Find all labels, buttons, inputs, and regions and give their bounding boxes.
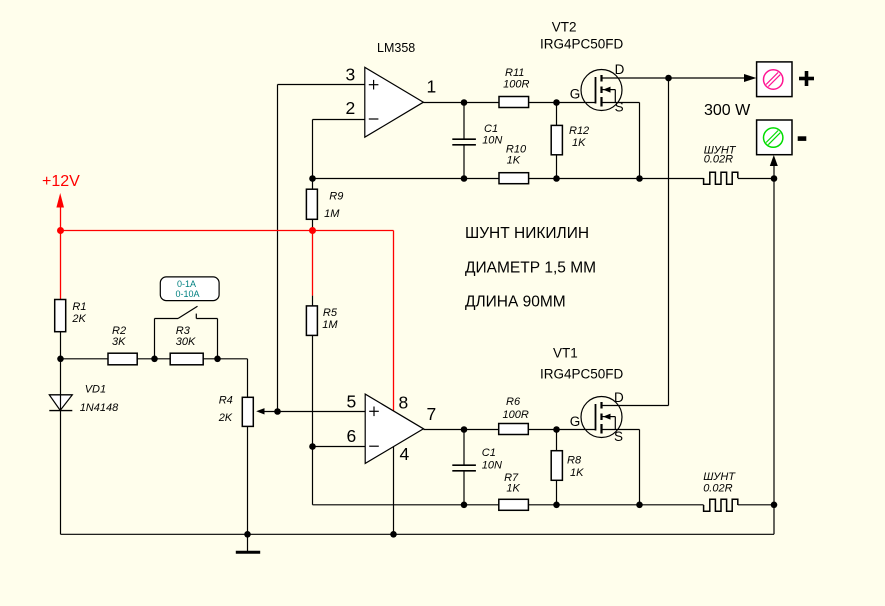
svg-text:5: 5 — [347, 392, 357, 412]
wire R12 top lead — [556, 103, 558, 126]
resistor R9 — [306, 189, 317, 219]
resistor R12 — [551, 125, 562, 154]
junction dots red — [57, 227, 316, 234]
wire pin5 horizontal — [278, 411, 366, 413]
svg-text:R4: R4 — [219, 395, 233, 407]
svg-text:VT2: VT2 — [552, 20, 577, 35]
node R6-R8-G — [553, 426, 560, 433]
svg-text:100R: 100R — [503, 78, 529, 90]
svg-text:D: D — [615, 62, 625, 77]
svg-text:+12V: +12V — [42, 173, 80, 190]
svg-text:ДИАМЕТР 1,5 ММ: ДИАМЕТР 1,5 ММ — [465, 260, 596, 277]
svg-text:0-1A: 0-1A — [177, 279, 196, 289]
svg-text:R9: R9 — [329, 190, 343, 202]
node pin6-R5 — [309, 443, 316, 450]
terminal + (output) — [757, 62, 792, 97]
svg-text:0-10A: 0-10A — [175, 289, 199, 299]
node pin4-ground — [390, 531, 397, 538]
node op2out-C1 — [461, 426, 468, 433]
node rowB-S — [636, 175, 643, 182]
svg-text:G: G — [570, 87, 581, 102]
node rowH-C1 — [461, 502, 468, 509]
op-amp U1A LM358 — [365, 67, 424, 137]
svg-text:1K: 1K — [570, 467, 584, 479]
svg-text:8: 8 — [399, 393, 409, 413]
svg-text:2K: 2K — [218, 412, 233, 424]
WIRES-BLACK — [61, 78, 775, 534]
resistor R6 — [499, 424, 529, 435]
svg-text:2K: 2K — [71, 313, 86, 325]
svg-text:1N4148: 1N4148 — [80, 402, 119, 414]
svg-text:ШУНТ: ШУНТ — [703, 471, 736, 483]
svg-text:C1: C1 — [482, 447, 496, 459]
wire R1 bottom lead — [60, 332, 62, 359]
wire C1b top lead — [463, 430, 465, 466]
node rowH-R8 — [553, 502, 560, 509]
svg-text:1M: 1M — [322, 319, 338, 331]
arrow into minus terminal — [770, 155, 778, 166]
wire VT1 source horizontal — [602, 429, 640, 431]
minus sign — [798, 136, 807, 141]
svg-text:S: S — [615, 100, 624, 115]
node rowH-right — [771, 502, 778, 509]
node op1out-C1 — [461, 99, 468, 106]
node ground — [244, 531, 251, 538]
svg-text:VD1: VD1 — [85, 383, 106, 395]
svg-text:R6: R6 — [506, 396, 521, 408]
node rowD-left — [57, 356, 64, 363]
node +12V left — [57, 227, 64, 234]
wire row D segment 2 — [137, 358, 170, 360]
wire red +12V vertical — [60, 198, 62, 300]
svg-text:1M: 1M — [324, 208, 340, 220]
svg-text:7: 7 — [427, 404, 437, 424]
ground — [236, 534, 260, 552]
svg-text:R1: R1 — [72, 301, 86, 313]
svg-text:S: S — [614, 429, 623, 444]
node rowB-R9 — [309, 175, 316, 182]
wire switch left horizontal — [155, 318, 179, 320]
node D bus — [665, 75, 672, 82]
wire red branch to R5 — [312, 231, 314, 296]
resistor R11 — [499, 97, 529, 108]
svg-text:1: 1 — [427, 77, 437, 97]
svg-text:3: 3 — [346, 65, 356, 85]
svg-text:R5: R5 — [323, 307, 338, 319]
node rowB-R12 — [553, 175, 560, 182]
svg-text:VT1: VT1 — [553, 346, 578, 361]
node rowD-sw-right — [214, 356, 221, 363]
wire ground row I — [61, 533, 775, 535]
svg-text:0.02R: 0.02R — [704, 154, 733, 166]
wire R12 bottom lead — [556, 155, 558, 179]
svg-text:G: G — [570, 414, 581, 429]
wire diode to ground row — [60, 411, 62, 535]
wire C1 top lead — [463, 103, 465, 140]
wire R4 top lead — [247, 359, 249, 398]
wire drain bus vertical VT2-VT1 — [668, 78, 670, 406]
capacitor C1 (top) — [452, 139, 476, 145]
wire VT1 source vertical — [639, 430, 641, 505]
resistor R3 — [170, 353, 203, 365]
svg-text:ШУНТ НИКИЛИН: ШУНТ НИКИЛИН — [465, 225, 589, 242]
node rowB-C1 — [461, 175, 468, 182]
svg-text:10N: 10N — [482, 460, 502, 472]
wire op1 output to R11 — [423, 102, 499, 104]
wire red horizontal — [61, 230, 394, 232]
resistor R8 — [551, 451, 562, 481]
wire R9 bottom lead — [312, 219, 314, 228]
wire switch right vertical — [217, 319, 219, 359]
shunt resistor (bottom) — [704, 499, 738, 511]
wire row B segment 2 — [529, 178, 704, 180]
wire pin6 horizontal — [313, 446, 366, 448]
wire pin2 vertical — [312, 120, 314, 179]
wire row H segment 3 — [738, 504, 774, 506]
svg-text:4: 4 — [400, 444, 410, 464]
wire R4 wiper to node — [261, 411, 278, 413]
wire VT1 drain horizontal — [602, 405, 669, 407]
switch S1 blade — [178, 306, 198, 318]
wire row H segment 1 — [313, 504, 499, 506]
wire VT2 source horizontal — [602, 102, 640, 104]
svg-text:2: 2 — [346, 98, 356, 118]
wire C1b bottom lead — [463, 471, 465, 505]
svg-text:R12: R12 — [569, 125, 589, 137]
resistor R1 — [55, 300, 66, 332]
wire pin3 horizontal — [278, 84, 365, 86]
wire left branch to diode — [60, 359, 62, 395]
wire R4 bottom to ground row — [247, 426, 249, 534]
svg-text:D: D — [614, 390, 624, 405]
terminal - (output) — [757, 120, 792, 155]
wire row D segment 1 — [61, 358, 109, 360]
wire pin4 vertical to ground row — [393, 447, 395, 535]
wire row B segment 3 — [738, 178, 774, 180]
resistor R5 — [306, 306, 317, 336]
wire R6 to VT1 gate — [528, 429, 595, 431]
wire R5 bottom vertical to row H — [312, 335, 314, 504]
wire switch right horizontal — [196, 318, 217, 320]
svg-text:IRG4PC50FD: IRG4PC50FD — [540, 37, 624, 52]
diode VD1 1N4148 — [49, 395, 72, 411]
resistor R7 — [499, 499, 529, 510]
+12V arrow — [56, 193, 64, 208]
resistor R2 — [108, 353, 137, 365]
svg-text:300 W: 300 W — [704, 102, 751, 119]
WIRES-RED +12V net — [56, 193, 393, 411]
svg-text:3K: 3K — [112, 336, 126, 348]
svg-text:LM358: LM358 — [377, 41, 415, 55]
node +12V R5 — [309, 227, 316, 234]
wire row H segment 2 — [528, 504, 703, 506]
wire VT2 source vertical — [639, 103, 641, 179]
wire op2 output to R6 — [424, 429, 499, 431]
potentiometer R4 — [242, 397, 253, 426]
resistor R10 — [499, 173, 529, 184]
node wiper — [274, 408, 281, 415]
op-amp U1B LM358 — [365, 394, 423, 463]
svg-text:6: 6 — [347, 426, 357, 446]
svg-text:1K: 1K — [507, 155, 521, 167]
svg-text:IRG4PC50FD: IRG4PC50FD — [540, 367, 624, 382]
wire pin3 vertical to R4 wiper node — [277, 85, 279, 412]
wire R5 top lead — [312, 296, 314, 306]
plus sign — [799, 71, 814, 86]
node rowB-right — [771, 175, 778, 182]
transistor VT2 IRG4PC50FD — [581, 70, 622, 111]
wire row B segment 1 — [313, 178, 500, 180]
wire R9 top lead — [312, 179, 314, 190]
wire switch left vertical — [154, 319, 156, 359]
wire red down to pin8 — [393, 231, 395, 411]
arrow into plus terminal — [744, 74, 756, 82]
svg-text:30K: 30K — [176, 336, 196, 348]
node rowH-S — [636, 502, 643, 509]
svg-text:ДЛИНА 90ММ: ДЛИНА 90ММ — [465, 294, 566, 311]
wire VT2 drain to plus terminal — [602, 77, 746, 79]
wire R11 to VT2 gate — [529, 102, 596, 104]
switch label box 0-1A/0-10A — [160, 277, 219, 301]
wire R8 top lead — [556, 430, 558, 451]
wire pin2 horizontal — [313, 119, 365, 121]
svg-text:C1: C1 — [484, 123, 498, 135]
wire right bus vertical — [773, 159, 775, 534]
node R11-R12-G — [553, 99, 560, 106]
svg-text:1K: 1K — [572, 137, 586, 149]
svg-text:100R: 100R — [503, 409, 529, 421]
junction dots black — [57, 75, 777, 538]
capacitor C1 (bottom) — [452, 465, 476, 471]
wire C1 bottom lead — [463, 145, 465, 179]
shunt resistor (top) — [704, 172, 738, 184]
svg-text:1K: 1K — [506, 483, 520, 495]
wire R8 bottom lead — [556, 480, 558, 505]
wire row D segment 3 — [203, 358, 247, 360]
svg-text:R8: R8 — [567, 455, 582, 467]
node rowD-sw-left — [151, 356, 158, 363]
svg-text:0.02R: 0.02R — [703, 482, 732, 494]
svg-text:10N: 10N — [482, 135, 502, 147]
switch right contact tick — [195, 314, 197, 319]
transistor VT1 IRG4PC50FD — [581, 397, 622, 438]
